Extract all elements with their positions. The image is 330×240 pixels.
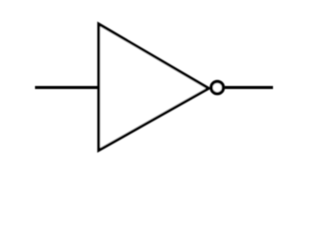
wire: output lead (225, 86, 273, 89)
inverter triangle (99, 24, 209, 150)
inversion bubble (211, 82, 223, 94)
wire: input lead (35, 86, 99, 89)
